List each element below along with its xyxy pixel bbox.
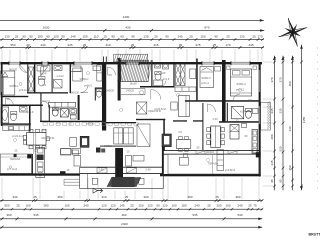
porch entry hatch [107, 177, 141, 187]
wall wc vertical [95, 88, 96, 101]
svg-text:p=4.6: p=4.6 [163, 77, 170, 81]
svg-text:SOBA 2: SOBA 2 [79, 77, 89, 81]
terrace divider [211, 154, 213, 174]
svg-text:450: 450 [187, 195, 192, 199]
wall stairs right [151, 60, 152, 86]
washer bathR [163, 63, 169, 69]
svg-text:KUP.: KUP. [41, 72, 47, 76]
svg-text:120: 120 [162, 204, 167, 208]
right dim chain [292, 56, 294, 190]
window end ticks [8, 61, 10, 65]
porch door band [80, 166, 163, 168]
svg-text:1020: 1020 [43, 26, 50, 30]
svg-text:1.9: 1.9 [42, 83, 46, 87]
svg-text:535: 535 [192, 213, 197, 217]
svg-text:p=26.5m2: p=26.5m2 [154, 107, 166, 111]
svg-text:240: 240 [194, 204, 199, 208]
dim row bottom 3 [0, 218, 262, 220]
sink bathR [155, 63, 161, 68]
balcony railing hatch [267, 101, 270, 129]
svg-text:9.5: 9.5 [108, 73, 112, 77]
svg-text:25: 25 [33, 195, 37, 199]
chair living [70, 137, 77, 146]
counter right wall [252, 130, 258, 154]
kitchen cabinets row [3, 126, 29, 131]
svg-text:90/120: 90/120 [9, 68, 17, 72]
sink bath1b [54, 66, 62, 71]
svg-text:245: 245 [270, 160, 274, 165]
svg-text:p=10.6: p=10.6 [84, 84, 93, 88]
cabinet bedroom2 [93, 66, 101, 71]
closet right [176, 64, 185, 86]
door right wall balcony [258, 106, 261, 124]
svg-text:2.40: 2.40 [212, 117, 218, 121]
wall hall right [202, 103, 203, 150]
shaft box left [114, 128, 123, 144]
outer wall bottom left [0, 173, 80, 175]
cabinets right kitchen [230, 125, 239, 140]
svg-text:25: 25 [83, 43, 87, 47]
sink bath3 [70, 109, 77, 115]
dim row fine [0, 39, 264, 41]
wall bath divider [52, 64, 53, 93]
dim row bottom fine [0, 200, 263, 202]
svg-text:25: 25 [226, 35, 230, 39]
wall bath2 bottom [1, 123, 31, 124]
svg-text:145: 145 [119, 204, 124, 208]
party wall center north [118, 58, 121, 101]
svg-text:140: 140 [70, 35, 75, 39]
canopy band [114, 54, 148, 62]
column terrace mid [14, 154, 17, 157]
svg-text:240: 240 [237, 204, 242, 208]
wall v bath3 left [49, 105, 50, 122]
svg-text:p=7.4m2: p=7.4m2 [7, 167, 18, 171]
svg-text:4.1: 4.1 [42, 128, 46, 132]
svg-text:150: 150 [200, 35, 205, 39]
outer wall bottom right [160, 174, 261, 176]
outer wall top [1, 62, 263, 64]
toilet ensuite [246, 111, 252, 119]
dim row bottom fine2 [0, 208, 263, 210]
svg-text:3.5: 3.5 [178, 130, 182, 134]
toilet bath3 [52, 109, 58, 116]
svg-text:430: 430 [125, 26, 130, 30]
svg-text:150: 150 [138, 204, 143, 208]
svg-text:240/25: 240/25 [106, 89, 114, 93]
svg-text:SOBA 4: SOBA 4 [236, 82, 246, 86]
svg-text:15: 15 [103, 35, 107, 39]
svg-text:20: 20 [26, 43, 30, 47]
wall living top right part [40, 121, 103, 122]
svg-text:90/210: 90/210 [104, 144, 112, 148]
svg-text:100: 100 [25, 204, 30, 208]
svg-text:360: 360 [235, 195, 240, 199]
svg-text:90: 90 [29, 35, 33, 39]
svg-text:75: 75 [253, 204, 257, 208]
svg-text:130: 130 [239, 35, 244, 39]
svg-text:30: 30 [179, 43, 183, 47]
door bedroom1 [20, 65, 27, 73]
steps [64, 178, 80, 180]
svg-text:p=4.9: p=4.9 [27, 110, 34, 114]
coffee table [171, 102, 177, 110]
wardrobe bedroom2 [97, 65, 102, 81]
svg-text:370: 370 [278, 77, 282, 82]
wall middle bay [106, 122, 136, 123]
svg-text:150: 150 [82, 35, 87, 39]
svg-text:p=9.8m2: p=9.8m2 [225, 168, 236, 172]
svg-text:25: 25 [16, 204, 20, 208]
svg-text:545: 545 [33, 213, 38, 217]
svg-text:120: 120 [147, 204, 152, 208]
terrace right outline [168, 154, 259, 174]
svg-text:p=14.2: p=14.2 [236, 88, 245, 92]
wall bedroom1 bottom [1, 96, 29, 97]
door hall2 [42, 101, 50, 109]
svg-text:25: 25 [154, 35, 158, 39]
wall ensuite bottom [219, 121, 259, 123]
shower bathR [154, 80, 163, 86]
kitchen counter left unit [36, 148, 45, 178]
svg-text:25: 25 [131, 43, 135, 47]
wall hall band right [173, 120, 187, 121]
svg-text:110: 110 [94, 35, 99, 39]
svg-text:240: 240 [40, 43, 45, 47]
wall shaft bath3 [78, 95, 80, 120]
svg-text:550: 550 [4, 204, 9, 208]
column [27, 154, 31, 158]
svg-text:280: 280 [270, 134, 274, 139]
hatch marks under wall [43, 123, 47, 126]
tv cabinet right unit [175, 87, 196, 91]
bed bedroom1 [1, 71, 15, 95]
svg-text:120: 120 [110, 204, 115, 208]
svg-text:95: 95 [131, 35, 135, 39]
toilet bath1 [38, 78, 44, 86]
svg-text:90: 90 [111, 35, 115, 39]
svg-text:25: 25 [130, 204, 134, 208]
wall v corridor [40, 93, 41, 121]
door corridor mid [108, 67, 116, 75]
closet left [28, 67, 33, 91]
svg-text:140: 140 [177, 35, 182, 39]
dark kitchen cabinets near party [96, 148, 101, 153]
svg-text:p=5.2m2: p=5.2m2 [19, 88, 30, 92]
svg-text:300: 300 [143, 195, 148, 199]
column right [256, 152, 261, 157]
terrace planter stripe [217, 150, 224, 171]
svg-text:95: 95 [278, 179, 282, 183]
bed bedroom3 [230, 69, 251, 96]
dim row total 2400 [0, 19, 264, 21]
outer wall right [259, 62, 261, 177]
svg-text:16x18: 16x18 [129, 82, 137, 86]
planter left [92, 178, 97, 184]
svg-text:2.40: 2.40 [145, 168, 151, 172]
outer wall left [1, 62, 3, 126]
extension lines bottom [1, 178, 3, 199]
svg-text:90: 90 [22, 35, 26, 39]
dark sill left [60, 171, 66, 175]
svg-text:2.1: 2.1 [56, 121, 60, 125]
bed small right [190, 69, 196, 79]
svg-text:240: 240 [83, 204, 88, 208]
compass rose [274, 13, 312, 51]
circle mark living right [140, 91, 144, 95]
svg-text:340: 340 [12, 195, 17, 199]
table right unit [176, 140, 191, 149]
svg-text:235: 235 [278, 108, 282, 113]
door hallR [208, 104, 216, 112]
dim row 1020/430/870 [0, 30, 264, 32]
svg-text:360: 360 [6, 213, 11, 217]
svg-text:105: 105 [64, 204, 69, 208]
desk bedroom2 [71, 66, 82, 72]
svg-text:530: 530 [278, 146, 282, 151]
svg-text:25: 25 [207, 204, 211, 208]
dining table [27, 133, 47, 146]
svg-text:130: 130 [143, 35, 148, 39]
sofa right unit [179, 95, 190, 116]
svg-text:1155: 1155 [302, 116, 306, 123]
svg-text:100: 100 [225, 204, 230, 208]
wall v kitchen west [32, 154, 33, 176]
svg-text:440: 440 [288, 126, 292, 131]
svg-text:240/25: 240/25 [86, 122, 94, 126]
door bedroom2 bottom [81, 85, 89, 92]
dim row rooms [0, 47, 264, 49]
svg-text:2400: 2400 [121, 222, 128, 226]
wall baths bottom [27, 92, 68, 93]
svg-text:550: 550 [10, 43, 15, 47]
right dim chain [282, 56, 284, 190]
svg-text:280: 280 [43, 204, 48, 208]
bathtub bath2 [1, 107, 9, 123]
svg-text:350: 350 [288, 165, 292, 170]
door bedroom3 [233, 94, 240, 101]
right dim chain [274, 56, 276, 190]
svg-text:25: 25 [189, 35, 193, 39]
sink ensuite [253, 109, 259, 114]
toilet bath2 [11, 113, 17, 121]
svg-text:180: 180 [37, 35, 42, 39]
svg-text:25: 25 [125, 195, 129, 199]
wall bedrooms bottom right [185, 100, 259, 102]
svg-text:SOBA 3: SOBA 3 [201, 76, 211, 80]
svg-text:25: 25 [15, 35, 19, 39]
svg-text:60: 60 [120, 35, 124, 39]
shower bath3 [61, 109, 69, 118]
svg-text:DNEVNI B.: DNEVNI B. [42, 136, 55, 140]
svg-text:90/210: 90/210 [206, 150, 214, 154]
door hall1 [6, 98, 14, 106]
svg-text:TERASA: TERASA [10, 157, 21, 161]
svg-text:370: 370 [270, 77, 274, 82]
balcony east outline [261, 103, 271, 131]
wall ensuite left [227, 103, 228, 122]
porch entry hatch base [112, 177, 134, 187]
sink bath2 [20, 107, 28, 113]
svg-text:100: 100 [53, 35, 58, 39]
svg-text:KUP.: KUP. [160, 71, 166, 75]
svg-text:460: 460 [121, 213, 126, 217]
svg-text:415: 415 [153, 43, 158, 47]
dotted margin column [316, 47, 319, 50]
wall bedroom1 right [27, 64, 28, 92]
bed bedroom2R [200, 67, 214, 88]
svg-text:170: 170 [257, 35, 262, 39]
svg-text:870: 870 [204, 26, 209, 30]
door bath right [160, 81, 166, 87]
planter right [139, 178, 144, 184]
svg-text:240/25: 240/25 [126, 89, 134, 93]
terrace left outline [0, 154, 31, 173]
porch outline [79, 167, 81, 188]
svg-text:90/120: 90/120 [71, 91, 79, 95]
party wall left unit [102, 62, 106, 131]
svg-text:90: 90 [46, 35, 50, 39]
svg-text:90: 90 [214, 35, 218, 39]
entrance arrow [97, 188, 103, 192]
svg-text:170: 170 [225, 43, 230, 47]
dim row bottom total 2400 [0, 226, 262, 228]
wall wc [95, 88, 102, 89]
svg-text:100: 100 [171, 204, 176, 208]
svg-text:50: 50 [156, 204, 160, 208]
wall bathR bottom [140, 86, 175, 88]
toilet bathR [155, 73, 161, 81]
wall living-hall right unit [136, 119, 165, 120]
wc middle [96, 91, 101, 97]
svg-text:95: 95 [270, 179, 274, 183]
svg-text:KUP.: KUP. [55, 107, 61, 111]
cabinet right of party wall [126, 156, 132, 167]
svg-text:25: 25 [213, 43, 217, 47]
svg-text:p=24.2m2: p=24.2m2 [12, 134, 24, 138]
stairs hatch [118, 60, 152, 81]
terrace marks [180, 157, 189, 165]
svg-text:p=11.2: p=11.2 [201, 81, 209, 85]
wall closet right [34, 64, 36, 93]
party wall center south [115, 148, 123, 179]
svg-text:SOBA 1: SOBA 1 [9, 84, 19, 88]
cabinet row bath3 [49, 102, 76, 107]
svg-text:410: 410 [105, 43, 110, 47]
wall mid horizontal [1, 105, 43, 107]
stove right unit [162, 134, 171, 147]
svg-text:275: 275 [195, 43, 200, 47]
stairs landing lines [121, 88, 145, 90]
island table right kitchen [211, 126, 221, 148]
svg-text:120: 120 [101, 204, 106, 208]
extension lines top [1, 50, 3, 62]
door triangle bath1 [41, 67, 48, 76]
svg-text:90: 90 [61, 35, 65, 39]
svg-text:2.40: 2.40 [98, 168, 104, 172]
svg-text:450: 450 [57, 195, 62, 199]
wall v kitchen hall [29, 105, 31, 132]
nightstand [227, 66, 231, 70]
svg-text:2400: 2400 [123, 15, 130, 19]
svg-text:TERASA: TERASA [208, 162, 219, 166]
svg-text:2.2m2: 2.2m2 [56, 74, 64, 78]
wall bedroom2R left [196, 59, 198, 102]
shower ensuite [232, 106, 244, 119]
svg-text:245: 245 [248, 43, 253, 47]
svg-text:245: 245 [67, 43, 72, 47]
cabinet left of party wall [61, 149, 71, 155]
wall bath right unit [173, 62, 174, 87]
door living right [151, 90, 161, 100]
right total chain 1155 [301, 45, 303, 190]
wall living west right unit [163, 119, 165, 151]
party wall right unit [222, 60, 226, 122]
svg-text:180: 180 [181, 204, 186, 208]
svg-text:25: 25 [248, 204, 252, 208]
bed bedroom2 [73, 68, 82, 81]
window right wall bedroom3 [258, 70, 261, 92]
wall hall left [70, 64, 71, 93]
svg-text:25: 25 [252, 35, 256, 39]
shaft box right [124, 128, 134, 144]
svg-text:450: 450 [288, 81, 292, 86]
stove box living [80, 136, 89, 147]
svg-text:200: 200 [216, 204, 221, 208]
window left wall [1, 74, 3, 92]
svg-text:KUP.: KUP. [240, 110, 246, 114]
wall middle south band [100, 146, 136, 147]
sideboard right-living [137, 124, 150, 147]
svg-text:BRUTTO: BRUTTO [309, 233, 320, 237]
shower bath1 [54, 80, 63, 89]
sideboard living left [61, 149, 72, 156]
svg-text:130: 130 [4, 35, 9, 39]
svg-text:540: 540 [237, 213, 242, 217]
bath1 cabinets [37, 66, 50, 72]
svg-text:310: 310 [101, 195, 106, 199]
svg-text:90: 90 [165, 35, 169, 39]
windows top wall [9, 62, 20, 65]
south doors band right unit [163, 150, 260, 152]
closet X right-living [136, 102, 146, 114]
